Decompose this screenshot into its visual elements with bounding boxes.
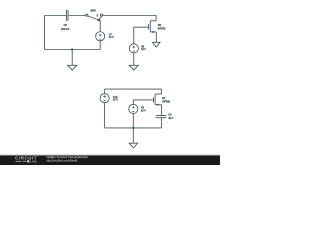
footer bar — [0, 154, 220, 156]
wire V8 to ground — [133, 53, 135, 65]
wire V10 to bottom — [104, 103, 106, 128]
svg-text:voltaje / N mos II / las ponem: voltaje / N mos II / las ponemcum — [46, 155, 88, 159]
svg-text:10 V: 10 V — [109, 35, 114, 39]
node junction ground bottom — [132, 127, 134, 129]
wire switch to V7 — [99, 21, 101, 32]
wire M7 source to C6 — [160, 105, 162, 116]
svg-text:http://circuitlab.com/c6hw48: http://circuitlab.com/c6hw48 — [46, 160, 77, 163]
voltage source V9 — [129, 104, 138, 113]
wire V7 to bottom — [99, 41, 101, 50]
wire C6 to bottom — [160, 118, 162, 128]
ground 4 — [132, 128, 134, 143]
svg-text:10 F: 10 F — [168, 116, 173, 120]
wire V10 top lead — [104, 89, 106, 94]
transistor M6 — [150, 20, 156, 22]
svg-text:C5: C5 — [64, 23, 68, 27]
wire bottom of loop 2 — [105, 127, 162, 129]
capacitor C6 — [156, 115, 167, 117]
svg-text:C6: C6 — [168, 113, 172, 117]
switch SW5 — [86, 14, 88, 16]
wire V10 top to M7 drain — [105, 89, 162, 94]
ground 2 — [153, 42, 161, 47]
svg-text:SW5: SW5 — [90, 8, 96, 12]
wire bottom of loop 1 — [45, 49, 101, 51]
svg-text:100 mF: 100 mF — [61, 27, 70, 31]
wire switch to M6 drain — [103, 16, 156, 21]
node junction ground — [71, 48, 73, 50]
svg-text:IRF530: IRF530 — [158, 28, 166, 31]
wire capacitor to switch — [68, 15, 86, 17]
capacitor C5 — [66, 10, 68, 21]
svg-text:10 V: 10 V — [141, 108, 146, 112]
footer logo LAB line — [16, 160, 27, 162]
ground 1 — [71, 50, 73, 66]
svg-text:LAB: LAB — [30, 160, 37, 164]
wire left rail — [44, 16, 46, 50]
voltage source V8 — [129, 44, 138, 53]
wire gate M6 to V8 — [134, 27, 149, 44]
transistor M7 — [155, 93, 161, 95]
svg-text:10 V: 10 V — [141, 47, 146, 51]
wire M6 source to ground — [155, 32, 157, 42]
wire top-left horizontal to capacitor — [45, 15, 67, 17]
voltage source V10 — [100, 94, 109, 103]
voltage source V7 — [96, 32, 105, 41]
svg-text:10 V: 10 V — [113, 97, 118, 101]
wire gate M7 to V9 — [133, 100, 153, 105]
svg-text:M7: M7 — [162, 97, 166, 100]
svg-text:IRF530: IRF530 — [162, 101, 170, 104]
ground 3 — [129, 65, 138, 70]
wire V9 to bottom — [132, 113, 134, 128]
